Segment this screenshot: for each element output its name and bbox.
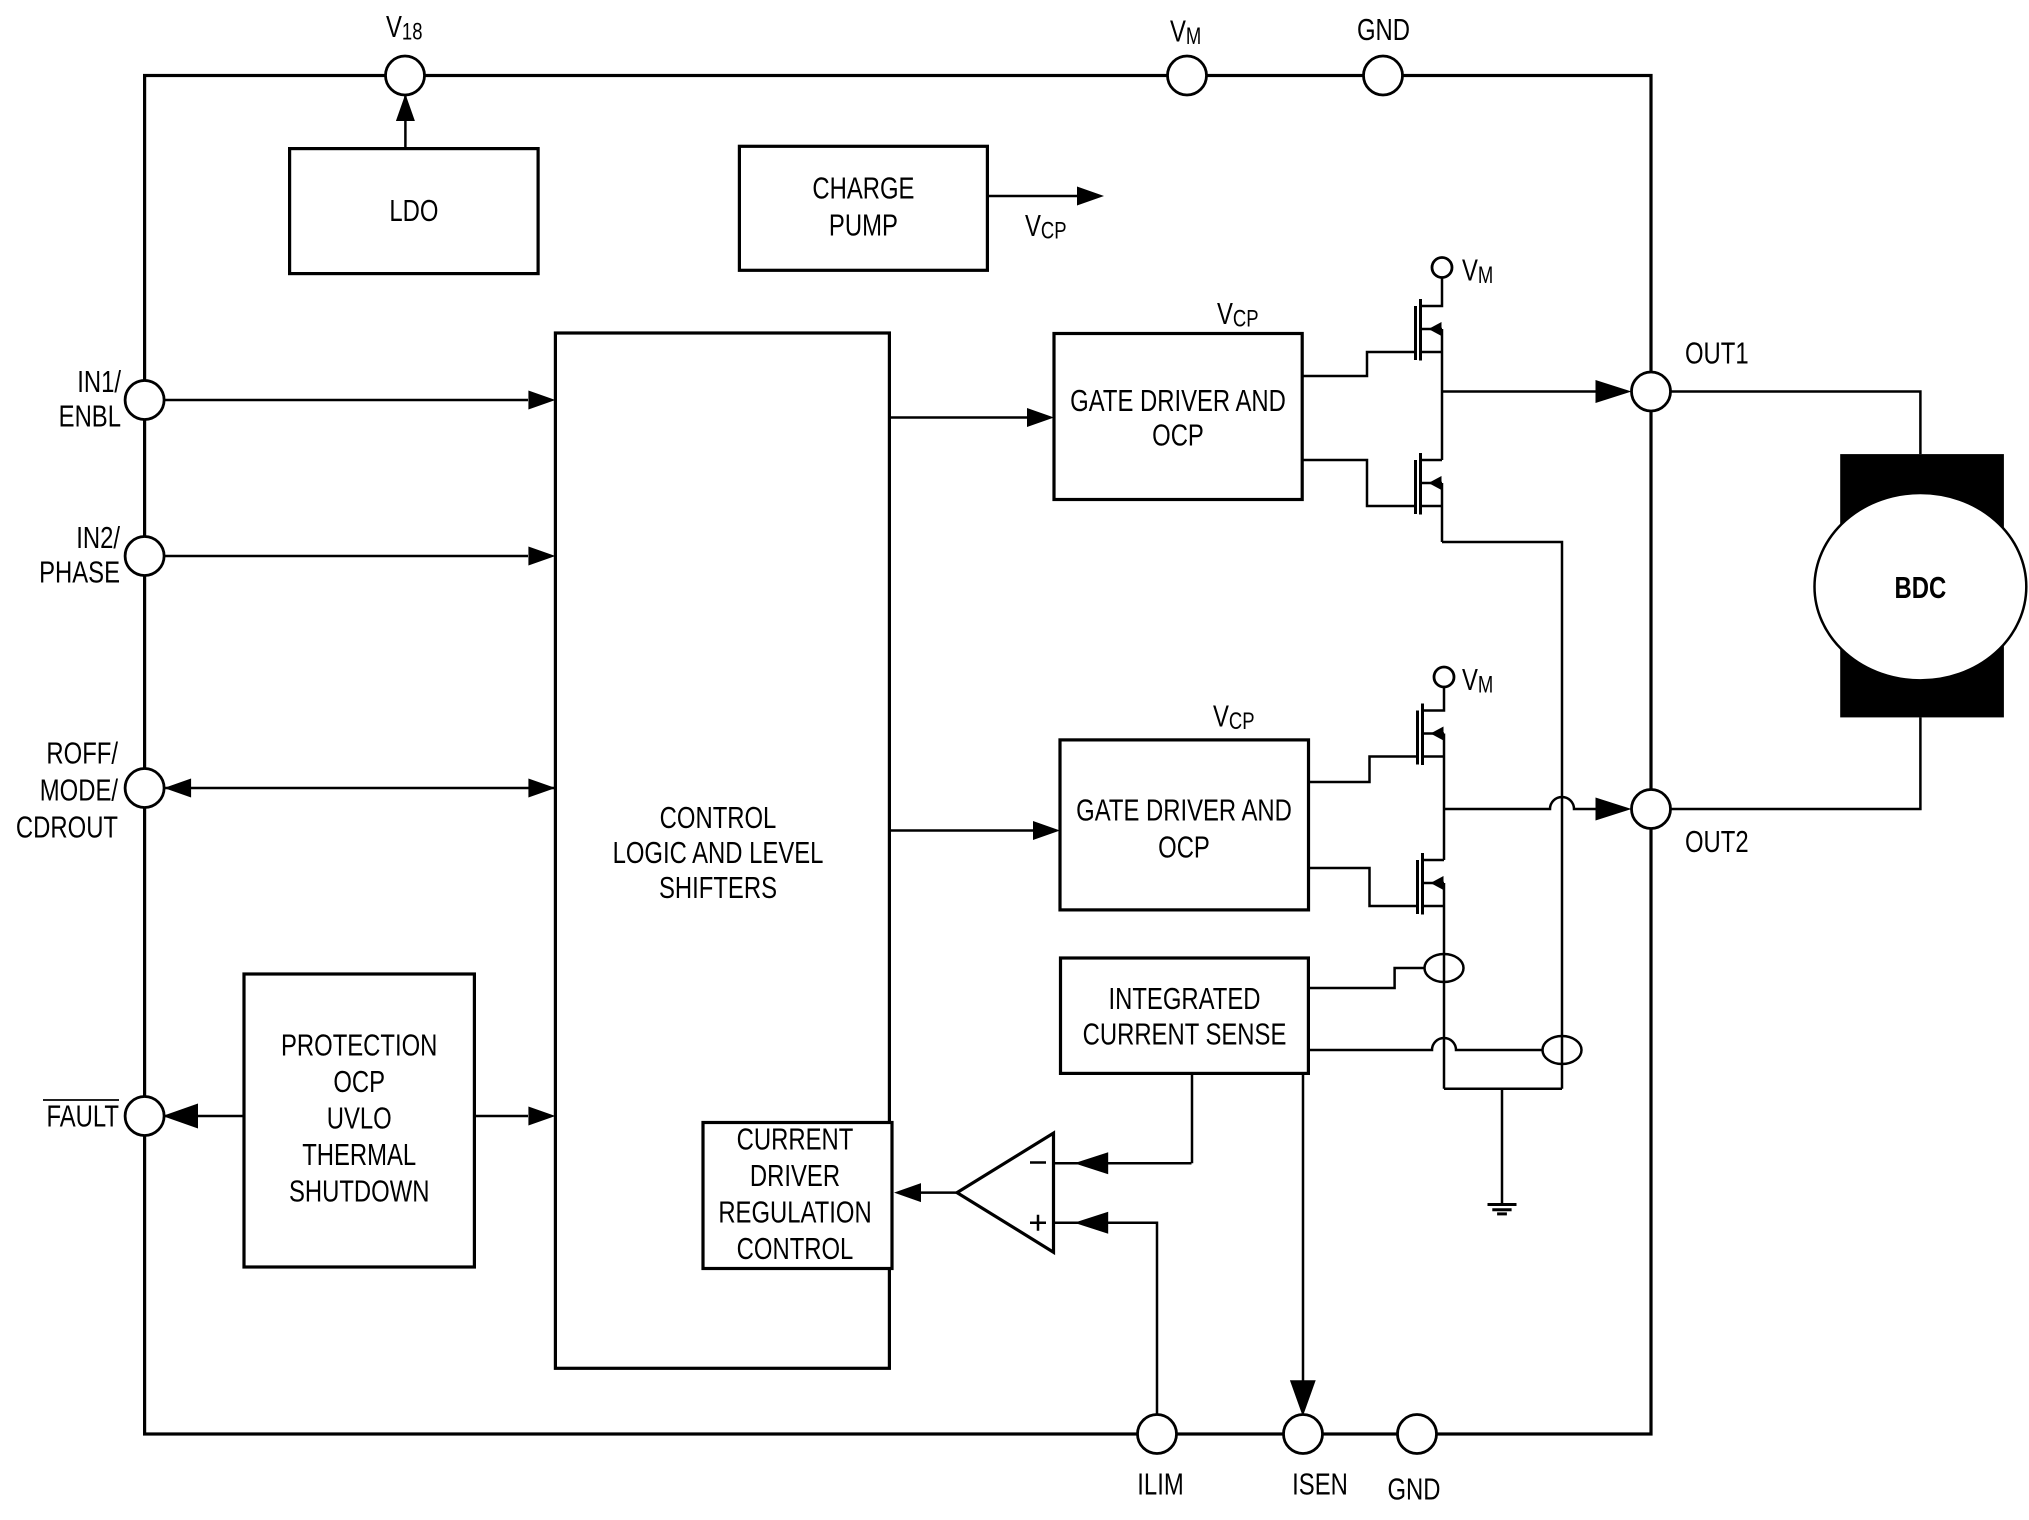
wire half-bridge 2 output rail	[1443, 734, 1446, 861]
current driver regulation control block	[703, 1123, 892, 1269]
svg-text:BDC: BDC	[1895, 570, 1947, 605]
plus sign of comparator	[1030, 1215, 1046, 1231]
LDO block	[290, 149, 538, 274]
svg-text:PUMP: PUMP	[829, 208, 898, 243]
svg-text:CURRENT SENSE: CURRENT SENSE	[1083, 1017, 1287, 1052]
svg-text:ILIM: ILIM	[1137, 1466, 1183, 1501]
svg-text:SHUTDOWN: SHUTDOWN	[289, 1173, 430, 1208]
gate driver 1 block	[1054, 334, 1302, 500]
wire half-bridge 1 output rail	[1441, 329, 1444, 460]
svg-text:REGULATION: REGULATION	[718, 1194, 871, 1229]
svg-text:GND: GND	[1387, 1471, 1440, 1506]
wire LDO output to V18 pin	[404, 96, 407, 149]
device outer boundary box	[145, 76, 1651, 1435]
svg-text:PHASE: PHASE	[39, 555, 120, 590]
wire charge pump VCP output	[987, 195, 1079, 198]
svg-text:CDROUT: CDROUT	[16, 809, 118, 844]
pin FAULT (active low)	[125, 1097, 164, 1136]
wire gate driver 2 to high-side FET gate	[1308, 757, 1418, 783]
wire gate driver 1 to low-side FET gate	[1302, 460, 1416, 506]
svg-text:MODE/: MODE/	[40, 772, 118, 807]
svg-text:INTEGRATED: INTEGRATED	[1108, 981, 1260, 1016]
svg-text:OUT2: OUT2	[1685, 824, 1749, 859]
pin OUT1	[1632, 372, 1671, 411]
transistor Q4 low-side of half-bridge 2	[1418, 853, 1445, 915]
svg-text:SHIFTERS: SHIFTERS	[659, 870, 777, 905]
wire control logic to gate driver 2	[889, 829, 1034, 832]
charge pump block	[739, 146, 987, 270]
pin GND bottom	[1398, 1415, 1437, 1454]
current sense ellipse on half-bridge 1 return line	[1543, 1036, 1582, 1064]
svg-text:CURRENT: CURRENT	[737, 1121, 854, 1156]
wire half-bridge 2 to OUT2 pin with hop over sense line	[1444, 797, 1606, 809]
pin IN1/ENBL	[125, 381, 164, 420]
svg-text:GATE DRIVER AND: GATE DRIVER AND	[1070, 383, 1286, 418]
svg-text:UVLO: UVLO	[327, 1100, 392, 1135]
svg-text:LOGIC AND LEVEL: LOGIC AND LEVEL	[613, 835, 824, 870]
svg-text:OCP: OCP	[333, 1064, 385, 1099]
pin V18	[386, 56, 425, 95]
integrated current sense block	[1061, 958, 1309, 1073]
wire comparator non-inverting input from ILIM	[1054, 1223, 1158, 1415]
wire low-side source of half-bridge 1 to sense line	[1442, 542, 1562, 1089]
BDC motor	[1815, 454, 2027, 717]
wire OUT2 to BDC motor	[1671, 717, 1921, 809]
ground	[1488, 1089, 1517, 1214]
wire control logic to gate driver 1	[889, 416, 1028, 419]
wire protection to FAULT pin	[164, 1115, 244, 1118]
svg-text:GND: GND	[1357, 12, 1410, 47]
protection block	[244, 974, 474, 1267]
svg-text:OCP: OCP	[1158, 829, 1210, 864]
wire IN2/PHASE to control logic	[164, 555, 528, 558]
svg-text:THERMAL: THERMAL	[302, 1137, 416, 1172]
svg-text:ROFF/: ROFF/	[46, 735, 118, 770]
svg-text:CONTROL: CONTROL	[660, 800, 777, 835]
minus sign of comparator	[1030, 1161, 1046, 1164]
pin VM	[1168, 56, 1207, 95]
svg-text:OCP: OCP	[1152, 418, 1204, 453]
gate driver 2 block	[1060, 740, 1309, 910]
wire gate driver 2 to low-side FET gate	[1308, 868, 1418, 906]
wire protection to control logic	[474, 1115, 528, 1118]
wire gate driver 1 to high-side FET gate	[1302, 352, 1416, 376]
wire joining both source returns	[1444, 1087, 1562, 1090]
pin IN2/PHASE	[125, 537, 164, 576]
current sense ellipse on half-bridge 2 rail	[1425, 954, 1464, 982]
svg-text:FAULT: FAULT	[47, 1098, 120, 1133]
svg-text:CONTROL: CONTROL	[737, 1231, 854, 1266]
svg-text:OUT1: OUT1	[1685, 335, 1749, 370]
svg-text:LDO: LDO	[389, 193, 438, 228]
svg-text:GATE DRIVER AND: GATE DRIVER AND	[1076, 792, 1292, 827]
svg-text:IN2/: IN2/	[76, 520, 120, 555]
transistor Q1 high-side of half-bridge 1	[1416, 278, 1443, 361]
VM supply pin of Q1	[1432, 258, 1452, 278]
VM supply pin of Q3	[1434, 667, 1454, 687]
svg-text:DRIVER: DRIVER	[750, 1158, 840, 1193]
wire OUT1 to BDC motor	[1671, 392, 1921, 455]
control logic block	[555, 333, 889, 1368]
wire integrated current sense to ellipse 1	[1308, 968, 1424, 988]
svg-text:ISEN: ISEN	[1292, 1466, 1348, 1501]
svg-text:PROTECTION: PROTECTION	[281, 1027, 437, 1062]
op-amp U1 current regulation comparator	[957, 1133, 1054, 1252]
wire ROFF/MODE/CDROUT bidirectional to control logic	[164, 787, 555, 790]
wire IN1/ENBL to control logic	[164, 399, 528, 402]
pin GND top	[1364, 56, 1403, 95]
wire comparator inverting input	[1054, 1162, 1192, 1165]
pin ROFF/MODE/CDROUT	[125, 769, 164, 808]
wire integrated current sense to comparator inverting input	[1191, 1073, 1194, 1163]
pin OUT2	[1632, 790, 1671, 829]
wire half-bridge 1 to OUT1 pin	[1442, 390, 1606, 393]
pin ILIM	[1138, 1415, 1177, 1454]
svg-text:ENBL: ENBL	[59, 399, 121, 434]
wire integrated current sense to ISEN pin	[1302, 1073, 1305, 1382]
transistor Q3 high-side of half-bridge 2	[1418, 687, 1445, 765]
transistor Q2 low-side of half-bridge 1	[1416, 453, 1443, 515]
pin ISEN	[1284, 1415, 1323, 1454]
wire integrated current sense to ellipse 2 with hop over rail	[1308, 1038, 1542, 1050]
svg-text:IN1/: IN1/	[77, 364, 121, 399]
wire comparator output to current driver regulation control	[920, 1191, 957, 1194]
svg-text:CHARGE: CHARGE	[812, 171, 914, 206]
